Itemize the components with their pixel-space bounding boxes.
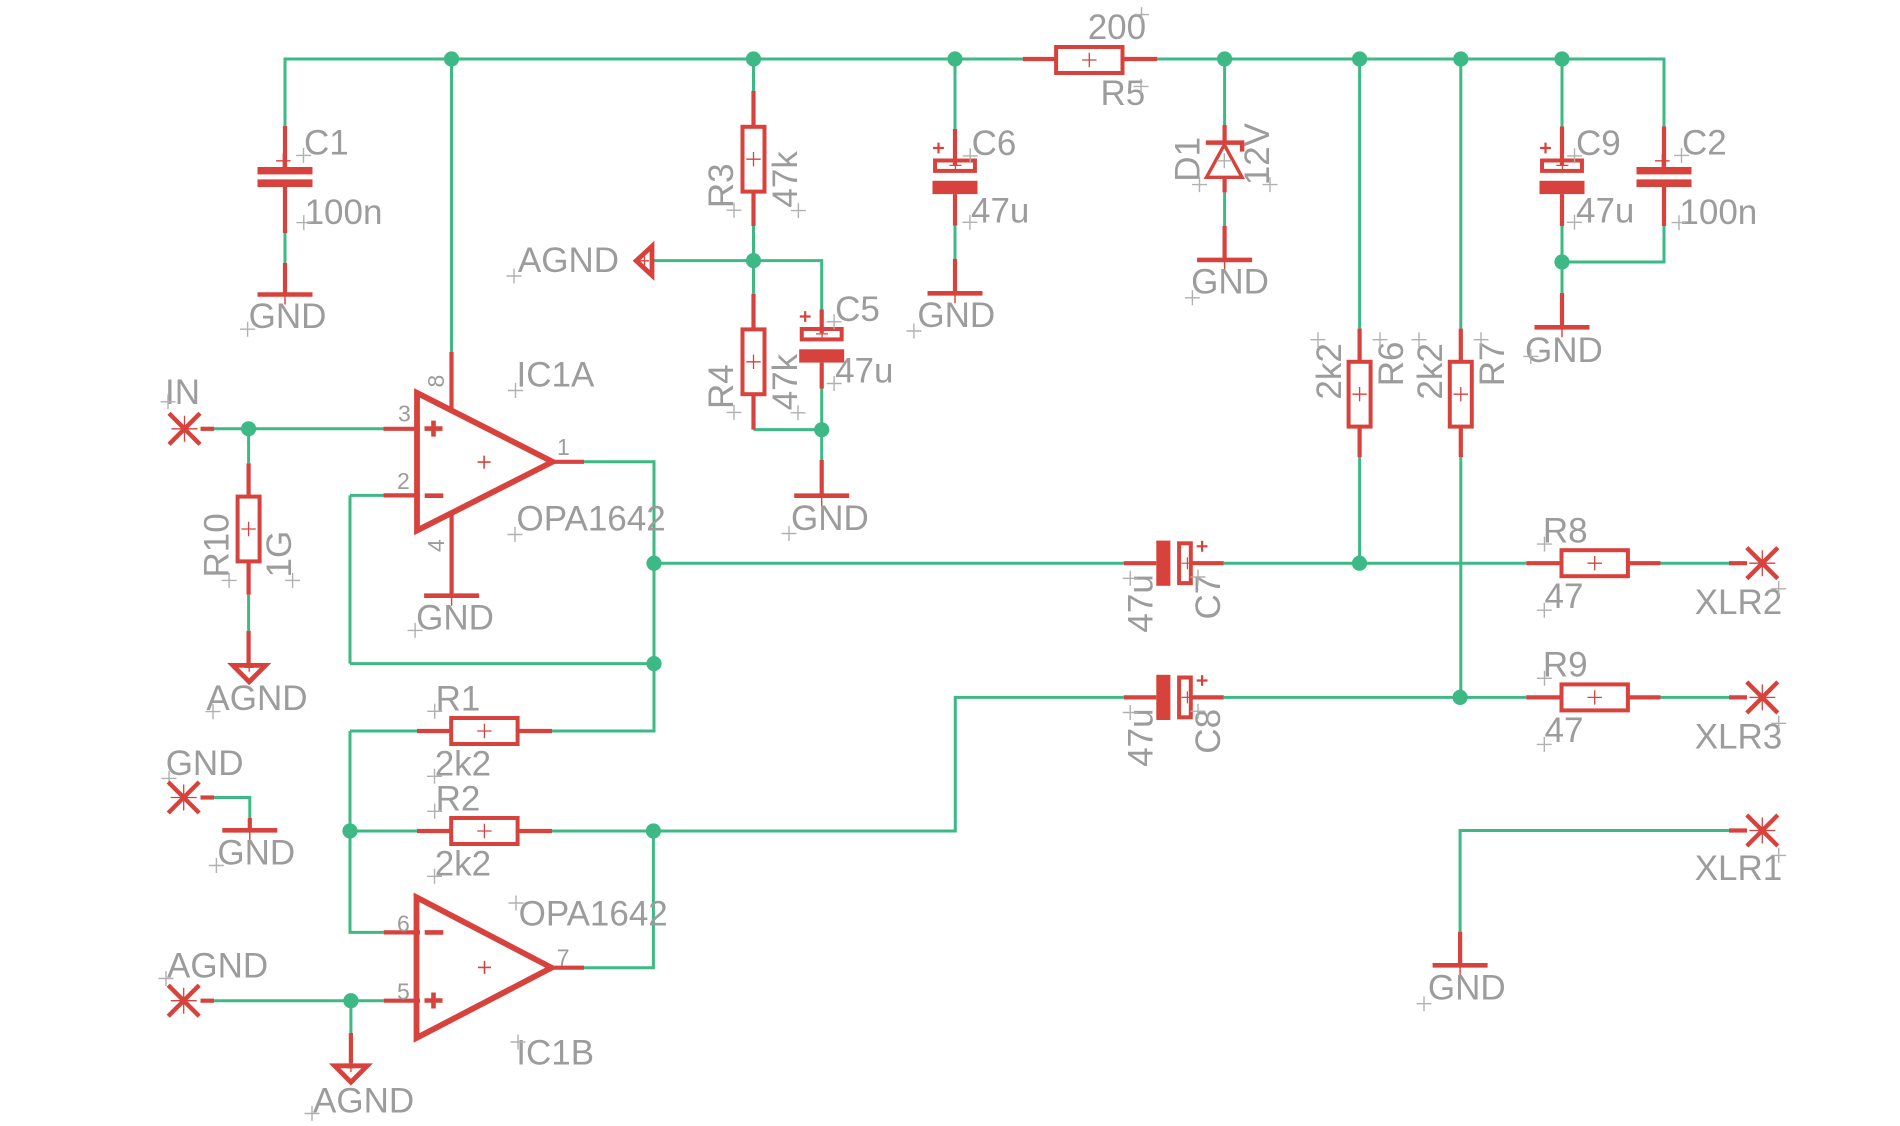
origin cross GND under pad — [209, 858, 224, 873]
resistor R5 — [1023, 57, 1057, 61]
origin cross 47u C7 — [1123, 571, 1138, 586]
wire R8 to XLR2 — [1661, 562, 1730, 565]
origin cross 47k R3 — [791, 203, 806, 218]
capacitor C5 — [820, 310, 824, 334]
svg-text:1G: 1G — [260, 531, 299, 578]
svg-text:AGND: AGND — [518, 241, 619, 280]
wire IC1B pin7 up to R2 right node — [584, 831, 653, 968]
svg-text:XLR2: XLR2 — [1695, 583, 1783, 622]
wire R2 right to C8 left — [552, 697, 1124, 831]
origin cross GND C9 — [1523, 349, 1538, 364]
svg-text:XLR1: XLR1 — [1695, 849, 1783, 888]
origin cross OPA1642 B — [509, 896, 524, 911]
origin cross 2k2 R1 — [427, 769, 442, 784]
origin cross R1 — [427, 704, 442, 719]
origin cross 47k R4 — [791, 405, 806, 420]
origin cross AGND R10 — [206, 704, 221, 719]
wire C9 bottom to junction — [1561, 226, 1564, 262]
svg-text:3: 3 — [398, 400, 411, 426]
origin cross 100n — [296, 215, 311, 230]
origin cross GND IC1A — [408, 623, 423, 638]
origin cross C9 — [1567, 148, 1582, 163]
resistor R10 — [247, 463, 251, 497]
origin cross 2k2 R2 — [427, 869, 442, 884]
svg-text:47k: 47k — [766, 151, 805, 208]
svg-text:AGND: AGND — [167, 947, 268, 986]
svg-text:47u: 47u — [971, 192, 1029, 231]
resistor R7 — [1459, 329, 1463, 363]
junction bus R7 — [1453, 51, 1468, 66]
ground GND under C1 — [283, 263, 287, 295]
svg-text:IC1A: IC1A — [517, 356, 595, 395]
ground GND symbol near pad — [248, 818, 252, 830]
pad XLR2 cross — [1729, 561, 1747, 565]
svg-text:R6: R6 — [1372, 342, 1411, 387]
wire V+ bus right segment with C2 top branch — [1157, 59, 1664, 127]
ground GND under IC1A pin4 — [424, 593, 479, 598]
origin cross 2k2 R6 — [1311, 332, 1326, 347]
svg-text:100n: 100n — [305, 193, 383, 232]
svg-text:47k: 47k — [766, 353, 805, 410]
junction C5/R4 — [814, 422, 829, 437]
svg-text:7: 7 — [557, 945, 570, 971]
origin cross GND C1 — [240, 322, 255, 337]
node AGND junction — [746, 253, 761, 268]
svg-text:R2: R2 — [436, 779, 481, 818]
resistor R2 — [417, 829, 452, 833]
origin cross R9 — [1537, 671, 1552, 686]
wire C6 top — [954, 59, 957, 129]
wire junction to GND stub C9 — [1561, 262, 1564, 293]
wire R7 bottom to C8 node — [1459, 457, 1462, 697]
origin cross 47u C9 — [1567, 215, 1582, 230]
origin cross C7 — [1191, 570, 1206, 585]
origin cross D1 — [1192, 177, 1207, 192]
origin cross GND C6 — [906, 324, 921, 339]
origin cross GND pad — [162, 771, 177, 786]
origin cross GND D1 — [1185, 290, 1200, 305]
wire R9 to XLR3 — [1661, 696, 1730, 699]
origin cross 47u C8 — [1123, 705, 1138, 720]
wire R10 bottom — [247, 595, 250, 631]
junction bus R6 — [1352, 51, 1367, 66]
pad GND cross — [168, 782, 199, 813]
op-amp IC1B triangle — [417, 897, 552, 1038]
origin cross R10 — [222, 573, 237, 588]
wire feedback horizontal to output node — [350, 662, 654, 665]
svg-text:IC1B: IC1B — [516, 1034, 594, 1073]
svg-text:C8: C8 — [1189, 709, 1228, 754]
svg-text:GND: GND — [1525, 331, 1603, 370]
capacitor C9 — [1560, 127, 1564, 166]
origin cross C8 — [1191, 704, 1206, 719]
svg-text:2k2: 2k2 — [435, 744, 491, 783]
svg-text:GND: GND — [1428, 969, 1506, 1008]
svg-text:C2: C2 — [1682, 124, 1727, 163]
svg-text:R1: R1 — [436, 679, 481, 718]
resistor R3 — [751, 91, 755, 127]
svg-text:1: 1 — [557, 434, 570, 460]
junction bus C9 — [1554, 51, 1569, 66]
junction IN/R10 — [241, 421, 256, 436]
pad XLR3 cross — [1729, 695, 1747, 699]
svg-text:OPA1642: OPA1642 — [519, 895, 668, 934]
wire junction to GND stub — [820, 430, 823, 460]
wire C6 bottom — [954, 226, 957, 260]
wire IC1A out node to C7 — [654, 562, 1124, 565]
resistor R1 — [417, 729, 452, 733]
diode D1 zener — [1222, 125, 1226, 143]
wire feedback vertical — [349, 495, 352, 663]
node R2 right / IC1B out — [646, 823, 661, 838]
svg-text:47u: 47u — [1122, 574, 1161, 632]
supply symbol AGND under IC1B — [349, 1033, 353, 1063]
svg-text:R4: R4 — [702, 364, 741, 409]
wire D1 top — [1223, 59, 1226, 125]
supply symbol AGND arrow (left pointing) — [636, 246, 652, 275]
svg-text:OPA1642: OPA1642 — [517, 500, 666, 539]
svg-text:GND: GND — [791, 499, 869, 538]
wire R3 top — [752, 59, 755, 91]
wire C5 bottom to junction — [820, 388, 823, 430]
resistor R4 — [751, 294, 755, 330]
origin cross OPA1642 A — [508, 527, 523, 542]
pad XLR1 cross — [1729, 828, 1747, 832]
capacitor C2 — [1662, 127, 1666, 168]
wire junction to C2 bottom — [1562, 226, 1664, 262]
capacitor C7 — [1124, 561, 1157, 565]
origin cross IC1B — [511, 1035, 526, 1050]
svg-text:6: 6 — [397, 911, 410, 937]
svg-text:GND: GND — [249, 297, 327, 336]
wire IC1A pin2 left — [350, 494, 384, 497]
wire R4 top — [752, 261, 755, 294]
wire V+ bus left segment with C1 branch — [285, 59, 1023, 126]
wire XLR1 to GND — [1460, 831, 1729, 932]
capacitor C6 — [953, 129, 957, 165]
origin cross AGND IC1B — [305, 1106, 320, 1121]
svg-text:2k2: 2k2 — [1411, 343, 1450, 399]
origin cross R2 — [427, 804, 442, 819]
origin cross 47u C5 — [827, 376, 842, 391]
svg-text:47u: 47u — [835, 352, 893, 391]
resistor R8 — [1526, 561, 1562, 565]
origin cross 47 R9 — [1537, 737, 1552, 752]
wire R1 left down to R2 node — [349, 731, 352, 831]
wire IC1A pin8 supply — [450, 59, 453, 352]
ground GND under C5 — [820, 460, 824, 496]
op-amp IC1A pin 2 lead — [384, 493, 421, 497]
origin cross 47 R8 — [1537, 603, 1552, 618]
origin cross 200 — [1134, 7, 1149, 22]
junction bus IC1A pin8 — [444, 51, 459, 66]
origin cross R4 — [727, 405, 742, 420]
node C8/R7 — [1453, 690, 1468, 705]
ground GND under D1 — [1222, 226, 1226, 260]
op-amp IC1A pin 8 lead — [449, 352, 453, 412]
wire AGND arrow to node — [652, 259, 754, 262]
wire R3 bottom to AGND node — [752, 226, 755, 261]
node feedback / R1 — [646, 656, 661, 671]
junction bus D1 — [1217, 51, 1232, 66]
wire GND pad stub — [214, 798, 250, 819]
ground GND under C9 — [1560, 293, 1564, 327]
origin cross C1 — [296, 148, 311, 163]
op-amp IC1A triangle — [417, 393, 553, 531]
op-amp IC1A pin 1 lead — [549, 460, 584, 464]
node IC1A output / C7 — [646, 556, 661, 571]
origin cross R6 — [1373, 332, 1388, 347]
wire C1 bottom — [284, 233, 287, 264]
op-amp IC1B pin 6 lead — [384, 930, 420, 934]
pad IN cross — [169, 413, 200, 444]
ground GND under XLR1 — [1458, 932, 1462, 966]
wire IC1A output to node down to R1 — [552, 462, 654, 731]
svg-text:12V: 12V — [1238, 122, 1277, 185]
svg-text:GND: GND — [166, 744, 244, 783]
svg-text:AGND: AGND — [313, 1082, 414, 1121]
svg-text:8: 8 — [423, 375, 449, 388]
origin cross 47u C6 — [962, 215, 977, 230]
svg-text:GND: GND — [416, 598, 494, 637]
svg-text:AGND: AGND — [206, 679, 307, 718]
capacitor C8 — [1124, 695, 1157, 699]
wire R6 top — [1358, 59, 1361, 329]
op-amp IC1A pin 3 lead — [384, 427, 421, 431]
svg-text:2: 2 — [397, 468, 410, 494]
svg-text:C7: C7 — [1189, 575, 1228, 620]
wire IN to IC1A pin3 — [214, 427, 384, 430]
svg-text:2k2: 2k2 — [1310, 343, 1349, 399]
svg-text:4: 4 — [423, 539, 449, 552]
svg-text:R10: R10 — [198, 513, 237, 577]
origin cross R7 — [1474, 332, 1489, 347]
svg-text:GND: GND — [1191, 263, 1269, 302]
origin cross 12V — [1263, 177, 1278, 192]
wire node to C5 top — [754, 261, 822, 310]
wire D1 bottom — [1223, 192, 1226, 226]
svg-text:47u: 47u — [1122, 708, 1161, 766]
origin cross IC1A — [508, 383, 523, 398]
origin cross XLR1 — [1771, 848, 1786, 863]
supply symbol AGND under R10 — [247, 631, 251, 663]
svg-text:IN: IN — [165, 373, 200, 412]
svg-text:2k2: 2k2 — [435, 844, 491, 883]
svg-text:C5: C5 — [835, 290, 880, 329]
origin cross C5 — [827, 314, 842, 329]
origin cross C2 — [1674, 148, 1689, 163]
junction bus R3 — [746, 51, 761, 66]
op-amp IC1B pin 7 lead — [548, 966, 584, 970]
origin cross R3 — [727, 203, 742, 218]
origin cross GND XLR1 — [1417, 996, 1432, 1011]
svg-text:XLR3: XLR3 — [1695, 717, 1783, 756]
capacitor C1 — [258, 167, 313, 174]
resistor R6 — [1357, 329, 1361, 363]
origin cross R5 — [1134, 79, 1149, 94]
svg-text:D1: D1 — [1169, 137, 1208, 182]
node C7/R6 — [1352, 556, 1367, 571]
origin cross C6 — [963, 148, 978, 163]
op-amp IC1B pin 5 lead — [384, 999, 420, 1003]
origin cross IN — [161, 394, 176, 409]
wire C9 top — [1561, 59, 1564, 127]
junction bus C6 — [947, 51, 962, 66]
svg-text:200: 200 — [1088, 8, 1146, 47]
svg-text:R3: R3 — [702, 163, 741, 208]
svg-text:GND: GND — [217, 834, 295, 873]
svg-text:C9: C9 — [1576, 124, 1621, 163]
origin cross R8 — [1537, 537, 1552, 552]
wire C7 to R8 node — [1224, 562, 1527, 565]
svg-text:R7: R7 — [1473, 342, 1512, 387]
svg-text:R5: R5 — [1101, 74, 1146, 113]
wire R1 left — [350, 730, 417, 733]
node R1/R2 left — [342, 823, 357, 838]
svg-text:C6: C6 — [972, 124, 1017, 163]
origin cross XLR2 — [1771, 581, 1786, 596]
origin cross XLR3 — [1771, 716, 1786, 731]
origin cross 100n C2 — [1672, 215, 1687, 230]
wire C8 to R9 node — [1224, 696, 1527, 699]
origin cross 2k2 R7 — [1412, 332, 1427, 347]
wire pin5 node to AGND arrow — [349, 1001, 352, 1033]
wire R2 node down to IC1B pin6 — [350, 831, 384, 932]
wire R7 top — [1459, 59, 1462, 329]
svg-text:47u: 47u — [1576, 192, 1634, 231]
svg-text:GND: GND — [917, 296, 995, 335]
pad AGND cross — [168, 985, 199, 1016]
junction C9/C2 bottom — [1554, 254, 1569, 269]
svg-text:5: 5 — [397, 978, 410, 1004]
ground GND under C6 — [953, 259, 957, 293]
wire R6 bottom to C7 node — [1358, 457, 1361, 563]
op-amp IC1A pin 4 lead — [450, 512, 454, 596]
wire R2 left — [350, 830, 417, 833]
wire AGND to IC1B pin5 — [214, 999, 384, 1002]
resistor R9 — [1526, 695, 1562, 699]
wire R10 top — [247, 429, 250, 464]
svg-text:C1: C1 — [304, 124, 349, 163]
svg-text:100n: 100n — [1679, 193, 1757, 232]
origin cross AGND mid — [507, 269, 522, 284]
origin cross 1G — [285, 573, 300, 588]
origin cross AGND pin5 — [159, 971, 174, 986]
wire R4 bottom to C5 junction — [754, 428, 822, 431]
origin cross GND C5 — [782, 526, 797, 541]
node pin5/AGND arrow — [343, 993, 358, 1008]
